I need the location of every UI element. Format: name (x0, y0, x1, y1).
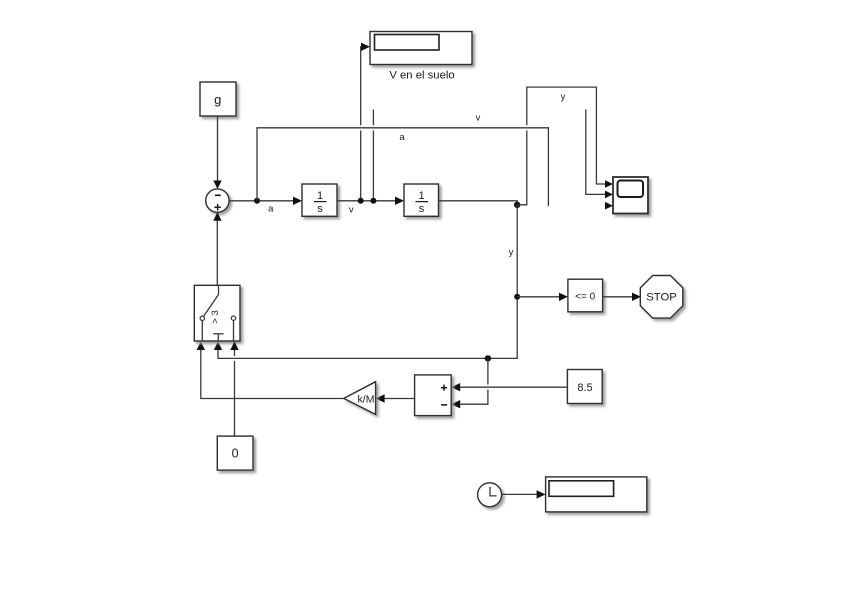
svg-text:g: g (214, 92, 221, 107)
wire clock to display2 (502, 490, 546, 498)
svg-text:a: a (399, 132, 405, 143)
gain k/M (344, 382, 376, 415)
svg-text:v: v (476, 113, 481, 124)
svg-text:a: a (268, 204, 274, 215)
wire to scope input2 (586, 110, 613, 199)
relational operator <= 0 (568, 279, 603, 312)
svg-text:s: s (317, 203, 323, 215)
svg-text:8.5: 8.5 (577, 382, 592, 394)
scope input3 arrowhead (605, 202, 613, 210)
wire 0 to switch port3 (230, 342, 238, 437)
wire y down to relational and sum2 (214, 205, 520, 362)
switch diagonal arm (204, 285, 219, 316)
wire int2 output y (439, 201, 521, 208)
svg-text:V en el suelo: V en el suelo (389, 69, 454, 81)
constant g (200, 82, 236, 116)
integrator I1 (302, 184, 337, 216)
wire y to relational operator (517, 293, 568, 301)
wire stub v up (372, 110, 374, 201)
switch port stubs (201, 321, 203, 341)
clock (478, 483, 502, 507)
wire v to display (361, 43, 370, 201)
display block 2 (546, 477, 647, 512)
wire g to sum (213, 116, 221, 189)
svg-text:STOP: STOP (646, 291, 677, 303)
svg-text:y: y (561, 92, 566, 103)
constant 8.5 (567, 370, 602, 404)
sum2 block (415, 375, 452, 416)
wire feedback a/v top (257, 113, 548, 207)
svg-text:1: 1 (317, 190, 323, 202)
wire gain to switch port1 (197, 342, 344, 399)
wire sum to integrator1, node a (229, 197, 302, 215)
svg-text:<= 0: <= 0 (575, 291, 595, 302)
wire switch to sum (213, 212, 221, 285)
svg-text:y: y (509, 247, 514, 258)
switch block (194, 285, 240, 341)
wire int1 to int2, node v (337, 197, 404, 216)
wire 8.5 to sum2 plus (451, 383, 567, 391)
svg-text:1: 1 (418, 190, 424, 202)
svg-text:k/M: k/M (358, 393, 375, 405)
wire dot down to sum2 minus (451, 358, 488, 408)
sum S1 (206, 189, 229, 212)
switch port circles (200, 316, 204, 320)
svg-text:0: 0 (232, 447, 239, 461)
wire sum2 to gain (376, 394, 415, 402)
scope (613, 177, 648, 214)
stop block (640, 276, 683, 319)
wire y to scope input1 (517, 87, 613, 205)
svg-text:v: v (349, 204, 354, 215)
wire relational to stop (603, 293, 641, 301)
svg-text:s: s (419, 203, 425, 215)
integrator I2 (404, 184, 439, 216)
display block "V en el suelo" (370, 32, 472, 82)
constant 0 (217, 436, 253, 470)
svg-text:> 3: > 3 (210, 310, 221, 323)
